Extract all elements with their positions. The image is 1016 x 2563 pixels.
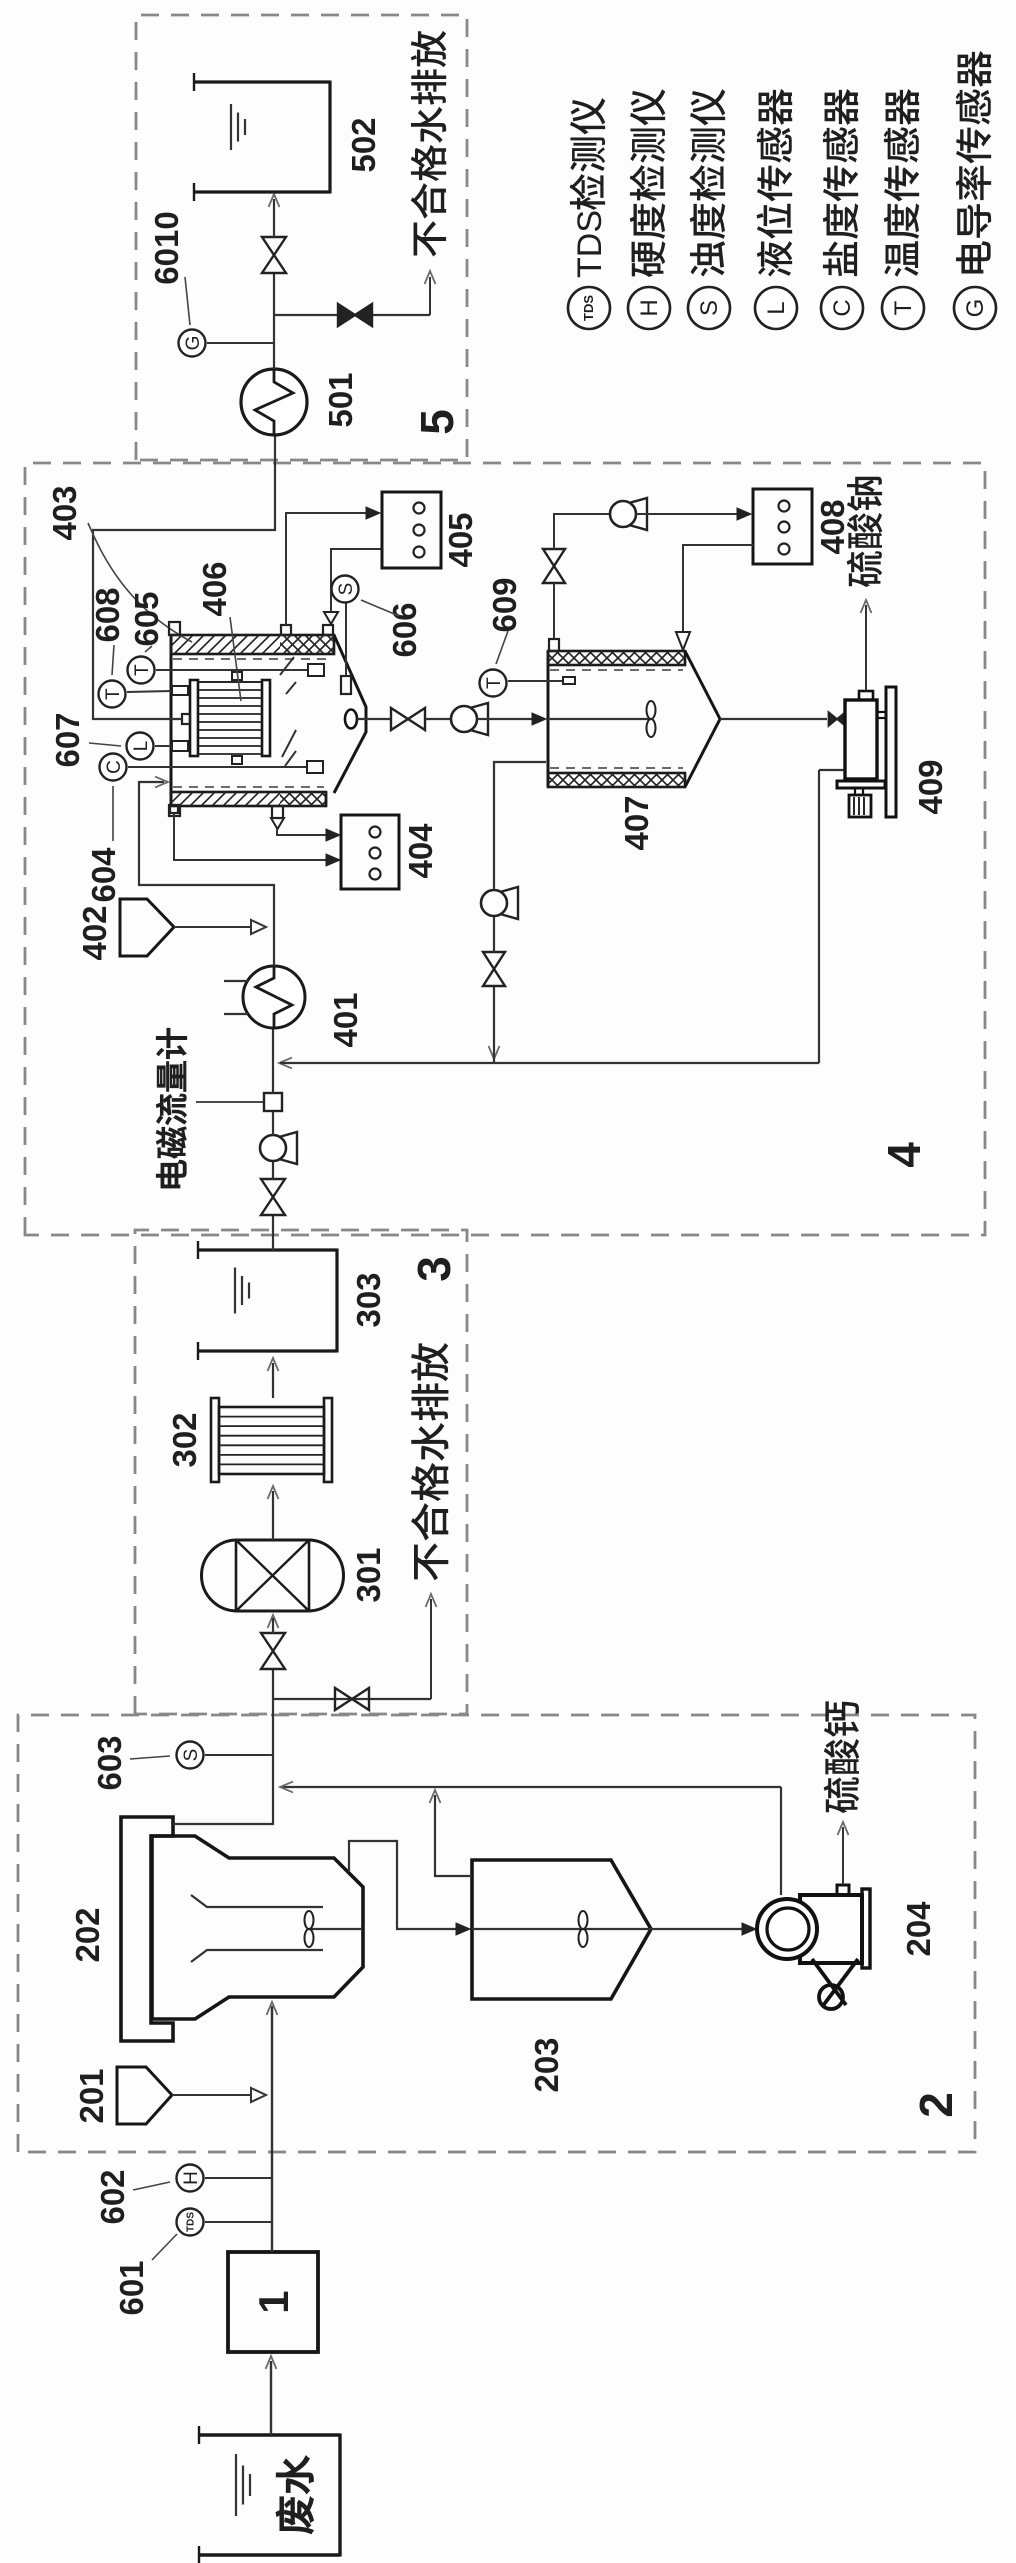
svg-text:TDS: TDS xyxy=(581,295,596,321)
tank 407 stirrer shaft xyxy=(548,718,651,720)
tank 407 inner dashed lines xyxy=(550,767,683,769)
tank 203 overflow branch xyxy=(435,1795,472,1876)
membrane module side tabs xyxy=(232,756,242,764)
dosing box 404 xyxy=(341,815,399,889)
tank 407 top edge xyxy=(547,651,550,787)
legend C xyxy=(821,287,863,329)
leader 601 xyxy=(152,2234,177,2260)
svg-text:203: 203 xyxy=(528,2037,565,2092)
svg-text:G: G xyxy=(962,299,989,318)
svg-text:1: 1 xyxy=(250,2290,297,2313)
svg-text:603: 603 xyxy=(91,1735,128,1790)
leader 607 xyxy=(89,743,121,746)
inlet valve centrifuge (filled) xyxy=(829,712,838,726)
arrow into box 408 xyxy=(737,508,751,520)
HX 501 zigzag xyxy=(255,369,293,435)
svg-text:G: G xyxy=(183,336,204,351)
membrane permeate stub xyxy=(182,714,190,724)
valve off-spec s5 (filled) xyxy=(338,304,355,326)
svg-text:501: 501 xyxy=(322,372,359,427)
leader flowmeter label xyxy=(196,1101,263,1103)
svg-text:403: 403 xyxy=(46,485,83,540)
svg-text:T: T xyxy=(484,677,505,689)
legend TDS xyxy=(568,287,610,329)
wire sodium sulfate outlet xyxy=(865,605,867,691)
label 电磁流量计 xyxy=(156,1160,186,1188)
wire valve to pump xyxy=(425,718,451,720)
valve off-spec branch s3 xyxy=(335,1688,352,1710)
wire reactor 202 outlet xyxy=(173,1670,273,1824)
probe T608 xyxy=(172,686,188,695)
leader 603 xyxy=(130,1756,170,1759)
arrow into box 405 xyxy=(366,507,380,519)
MBR outlet flange ellipse xyxy=(345,710,357,729)
svg-text:407: 407 xyxy=(618,795,655,850)
svg-text:202: 202 xyxy=(69,1907,106,1962)
svg-text:602: 602 xyxy=(94,2169,131,2224)
label 硫酸钠 xyxy=(847,551,883,587)
HX 401 circle xyxy=(243,966,305,1028)
arrow return merge into main xyxy=(280,1782,293,1793)
probe C604 xyxy=(307,761,323,773)
MBR inner dashed wall lines xyxy=(173,658,332,660)
return line to main xyxy=(281,1786,781,1788)
wire 302 to 303 xyxy=(272,1363,274,1398)
centrate return line horizontal xyxy=(818,770,820,1063)
svg-text:302: 302 xyxy=(166,1412,203,1467)
section 4 dashed border xyxy=(25,463,985,1235)
arrow into pump 204 xyxy=(742,1923,756,1935)
svg-text:402: 402 xyxy=(76,905,113,960)
leader 406 xyxy=(230,617,241,701)
arrow into 303 xyxy=(268,1358,279,1371)
wire gypsum outlet xyxy=(842,1827,844,1885)
permeate line over the top to HX501 xyxy=(93,435,275,719)
sensor S 603 xyxy=(205,1754,272,1756)
wire nozzle B to box 404 xyxy=(277,829,334,835)
section 2 dashed border xyxy=(18,1715,975,2152)
svg-text:S: S xyxy=(696,300,723,316)
svg-text:6010: 6010 xyxy=(148,211,185,284)
centrifuge motor stub xyxy=(855,788,863,795)
vessel 301 inner box with X xyxy=(236,1540,309,1611)
wire valve-pump 407branch xyxy=(493,916,495,952)
branch to off-spec s5 xyxy=(274,314,430,316)
probe T605 xyxy=(308,664,324,676)
dosing box 408 xyxy=(753,489,812,564)
return junction arrow (centrate) xyxy=(279,1058,292,1069)
sensor S 606 probe xyxy=(341,676,351,694)
filter 302 top cap xyxy=(211,1398,219,1482)
leader 606 xyxy=(361,600,399,616)
arrow hopper 402 feed xyxy=(251,920,266,934)
flow meter square xyxy=(264,1093,282,1111)
svg-text:408: 408 xyxy=(814,499,851,554)
wire unit1 to reactor 202 xyxy=(271,2006,273,2252)
sensor T 609 xyxy=(480,670,507,697)
svg-text:606: 606 xyxy=(386,602,423,657)
membrane module 406 bottom header xyxy=(262,680,270,756)
arrow sodium sulfate xyxy=(861,600,872,613)
filter 302 bottom cap xyxy=(324,1398,332,1482)
wire branch to text s3 xyxy=(430,1599,432,1699)
pump MBR outlet xyxy=(470,703,488,735)
MBR drain nozzle B xyxy=(272,806,283,818)
wire return to pump 204 xyxy=(780,1787,782,1895)
svg-text:T: T xyxy=(890,300,917,315)
svg-text:401: 401 xyxy=(327,992,364,1047)
centrifuge motor hatched xyxy=(849,795,871,817)
leader 602 xyxy=(133,2182,170,2190)
svg-text:405: 405 xyxy=(442,512,479,567)
svg-text:608: 608 xyxy=(89,587,126,642)
svg-text:L: L xyxy=(763,301,790,314)
tank 203 stirrer shaft xyxy=(472,1928,651,1930)
svg-text:L: L xyxy=(131,741,152,752)
MBR drain nozzle A xyxy=(170,805,178,813)
MBR bottom left closure xyxy=(325,792,328,806)
wire 401 up-over to MBR xyxy=(139,782,274,966)
sensor C 604 xyxy=(100,754,127,781)
svg-text:204: 204 xyxy=(900,1901,937,1957)
sensor TDS 601 xyxy=(205,2221,272,2223)
wire nozzle B right to box 405 xyxy=(331,549,381,612)
sensor S 606 xyxy=(332,576,359,603)
tank 407 propeller xyxy=(647,719,656,737)
reactor 202 draft tube right xyxy=(191,1895,323,1907)
wire flowmeter to HX401 xyxy=(272,1028,274,1093)
arrow into tank 203 xyxy=(456,1923,470,1935)
probe T609 xyxy=(563,677,575,684)
valve nozzle B right xyxy=(324,612,338,624)
probe L607 xyxy=(172,741,188,751)
leader 609 xyxy=(496,631,508,664)
label 不合格水排放 s5 xyxy=(414,221,447,256)
MBR diagonal level ticks xyxy=(280,657,294,675)
pump 204 wheel xyxy=(819,1985,843,2009)
sensor T 608 xyxy=(99,681,126,708)
wire box 408 to tank 407 valve xyxy=(683,545,753,632)
unit 1 box xyxy=(228,2252,318,2352)
wire 303 onward xyxy=(272,1215,274,1250)
svg-text:2: 2 xyxy=(910,2092,962,2118)
valve before 301 xyxy=(261,1651,285,1669)
MBR hopper bottom xyxy=(334,635,366,793)
reactor 202 body xyxy=(152,1836,363,2019)
centrate return line vertical xyxy=(280,1062,819,1064)
svg-text:201: 201 xyxy=(73,2068,110,2123)
pump 407-408 line xyxy=(629,498,647,530)
section 3 dashed border xyxy=(135,1230,467,1714)
arrow into 301 xyxy=(268,1615,279,1628)
svg-text:3: 3 xyxy=(408,1256,460,1282)
leader 608 xyxy=(112,645,114,675)
hopper 201 xyxy=(117,2067,172,2124)
arrow off-spec s5 xyxy=(425,271,436,284)
arrow overflow merge xyxy=(430,1790,441,1803)
svg-text:601: 601 xyxy=(113,2260,150,2315)
wire tank to unit 1 xyxy=(270,2361,272,2435)
wire hopper 402 to main xyxy=(174,926,258,928)
wire 407 nozzle to valve xyxy=(553,583,555,639)
branch to off-spec drain (section3) xyxy=(273,1698,431,1700)
leader 6010 xyxy=(185,277,190,325)
arrow off-spec s3 xyxy=(426,1594,437,1607)
arrow into 302 xyxy=(268,1486,279,1499)
wire hopper 201 to main line xyxy=(172,2094,258,2096)
wire 301 to 302 xyxy=(272,1491,274,1540)
wire valve to pump 408line xyxy=(554,514,610,549)
valve 407-408 line xyxy=(543,566,565,583)
arrow at return junction xyxy=(489,1046,500,1059)
svg-text:4: 4 xyxy=(878,1142,930,1168)
dosing box 405 xyxy=(382,492,441,568)
valve MBR outlet xyxy=(391,708,408,730)
svg-text:S: S xyxy=(336,583,357,596)
MBR corner tabs xyxy=(169,622,180,635)
pump 204 base plate xyxy=(862,1889,870,1968)
svg-text:TDS: TDS xyxy=(571,210,609,278)
arrow into 502 xyxy=(269,194,280,207)
wire valve-301 xyxy=(272,1618,274,1633)
svg-text:301: 301 xyxy=(350,1547,387,1602)
svg-text:S: S xyxy=(181,1749,202,1762)
arrow gypsum xyxy=(838,1822,849,1835)
svg-text:604: 604 xyxy=(85,847,122,903)
tank 407 hopper bottom xyxy=(685,651,720,787)
HX 401 zigzag xyxy=(256,966,292,1028)
valve before 502 xyxy=(262,255,286,273)
pump on 407 feed branch xyxy=(500,887,518,919)
hopper 402 xyxy=(120,899,174,956)
wire valve-pump xyxy=(272,1161,274,1179)
MBR left wall hatched xyxy=(171,792,326,806)
wire pump to tank 407 xyxy=(477,718,538,720)
svg-text:406: 406 xyxy=(196,561,233,616)
MBR nozzle B right xyxy=(323,625,333,635)
label 不合格水排放 s3 xyxy=(414,1543,448,1580)
branch to tank 407 top: wire xyxy=(493,986,495,1063)
arrow hopper 201 feed xyxy=(251,2088,266,2102)
wire nozzle A right to box 405 xyxy=(286,513,374,625)
svg-text:502: 502 xyxy=(345,117,382,172)
pump 204 body xyxy=(800,1895,862,1963)
centrifuge base plate xyxy=(886,687,896,817)
legend H xyxy=(628,287,670,329)
MBR outlet wire to valve xyxy=(357,718,391,720)
leader 403 curve xyxy=(88,523,192,642)
legend L xyxy=(755,287,797,329)
svg-text:C: C xyxy=(829,299,856,316)
tank 407 top nozzle xyxy=(549,639,559,651)
label feed-tank 废水 xyxy=(276,2497,314,2534)
wire pump to box 408 xyxy=(636,513,744,515)
svg-text:TDS: TDS xyxy=(186,2212,197,2232)
wire pump to 407 top xyxy=(494,762,546,890)
tank 407 right wall hatched xyxy=(548,651,685,665)
centrifuge base bar xyxy=(837,781,885,788)
pump 204 outlet nozzle xyxy=(837,1885,849,1895)
svg-text:404: 404 xyxy=(402,823,439,879)
arrow into unit 1 xyxy=(266,2356,277,2369)
vessel 301 capsule xyxy=(202,1540,344,1611)
svg-text:C: C xyxy=(104,760,125,774)
sensor L 607 xyxy=(127,733,154,760)
reactor 202 rim xyxy=(121,1817,173,2041)
sensor H 602 xyxy=(205,2177,272,2179)
valve on 407 feed branch xyxy=(483,969,505,986)
reactor 202 propeller xyxy=(305,1929,314,1947)
wire tank 203 to pump 204 xyxy=(651,1928,752,1930)
svg-text:605: 605 xyxy=(128,591,165,646)
section 5 dashed border xyxy=(136,15,467,460)
centrifuge outlet nozzle xyxy=(859,691,873,700)
legend S xyxy=(688,287,730,329)
wire valve to 502 xyxy=(273,199,275,237)
wire 407 to centrifuge xyxy=(720,718,827,720)
arrow feed into MBR tank xyxy=(155,777,168,788)
arrow into box 404 b xyxy=(326,829,340,841)
HX 501 circle xyxy=(241,369,307,435)
wire branch to text s5 xyxy=(429,277,431,315)
arrow into tank 407 xyxy=(532,713,546,725)
wire 501 to valve xyxy=(273,273,275,369)
arrow into reactor 202 xyxy=(267,2002,278,2015)
sensor G 6010 xyxy=(179,330,206,357)
MBR tank top edge xyxy=(170,635,173,806)
tank 407 left wall hatched xyxy=(548,773,685,787)
valve main s4 xyxy=(261,1197,285,1215)
label 硫酸钙 xyxy=(824,1777,860,1813)
MBR right wall hatched xyxy=(171,635,334,654)
svg-text:409: 409 xyxy=(912,759,949,814)
wire nozzle A to box 404 xyxy=(174,813,334,860)
valve nozzle B xyxy=(271,818,284,829)
svg-text:H: H xyxy=(636,299,663,316)
tank 502 xyxy=(194,190,330,193)
legend G xyxy=(954,287,996,329)
wire drain to centrifuge body xyxy=(819,769,845,771)
centrifuge plate connector xyxy=(877,712,886,718)
svg-text:T: T xyxy=(132,664,153,676)
leader 604 xyxy=(112,786,114,841)
arrow into box 404 a xyxy=(326,854,340,866)
legend T xyxy=(882,287,924,329)
centrifuge 409 body xyxy=(845,700,877,779)
tank 203 body xyxy=(472,1860,651,1999)
leader 605 xyxy=(145,646,152,652)
reactor 202 impeller shaft xyxy=(309,1928,362,1930)
MBR permeate suction nozzle A right xyxy=(281,625,291,635)
HX 401 coolant stubs xyxy=(224,1013,248,1015)
pump 204 foot bracket xyxy=(812,1959,846,2005)
reactor 202 draft tube left xyxy=(191,1950,323,1962)
svg-text:607: 607 xyxy=(49,712,86,767)
svg-text:H: H xyxy=(181,2171,202,2185)
filter 302 body xyxy=(219,1407,324,1474)
wire 202 to tank 203 xyxy=(349,1841,462,1929)
tank 203 propeller xyxy=(579,1929,588,1947)
tank 303 xyxy=(198,1349,337,1352)
svg-text:5: 5 xyxy=(411,409,463,435)
wire pump-flowmeter xyxy=(272,1111,274,1135)
pump main s4 xyxy=(279,1132,297,1164)
svg-text:T: T xyxy=(103,688,124,700)
valve 408 return into 407 xyxy=(676,632,690,650)
svg-text:303: 303 xyxy=(350,1272,387,1327)
membrane module 406 top header xyxy=(190,680,198,756)
svg-text:609: 609 xyxy=(486,577,523,632)
sensor T 605 xyxy=(128,657,155,684)
wastewater tank (feed) xyxy=(199,2553,340,2556)
membrane module 406 plates xyxy=(198,753,262,755)
